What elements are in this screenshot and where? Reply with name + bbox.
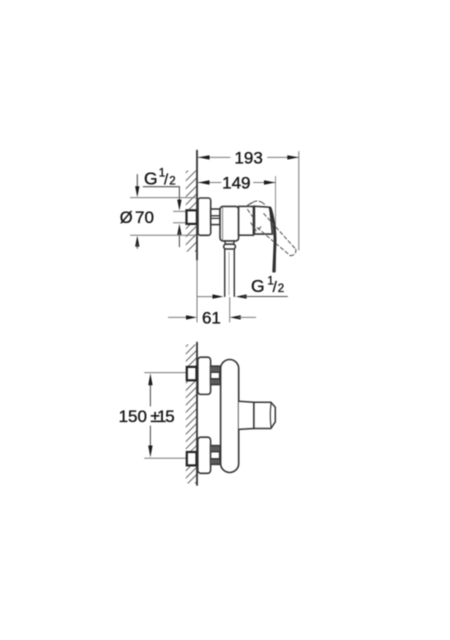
svg-text:G: G <box>251 276 265 296</box>
svg-text:193: 193 <box>234 149 262 168</box>
svg-text:70: 70 <box>135 208 154 227</box>
svg-text:G: G <box>144 168 158 188</box>
svg-text:Ø: Ø <box>120 209 133 227</box>
svg-text:2: 2 <box>169 175 175 187</box>
svg-text:2: 2 <box>278 283 284 295</box>
svg-text:149: 149 <box>222 174 250 193</box>
svg-text:150: 150 <box>119 407 147 426</box>
svg-text:61: 61 <box>202 309 221 328</box>
svg-text:15: 15 <box>157 407 174 426</box>
